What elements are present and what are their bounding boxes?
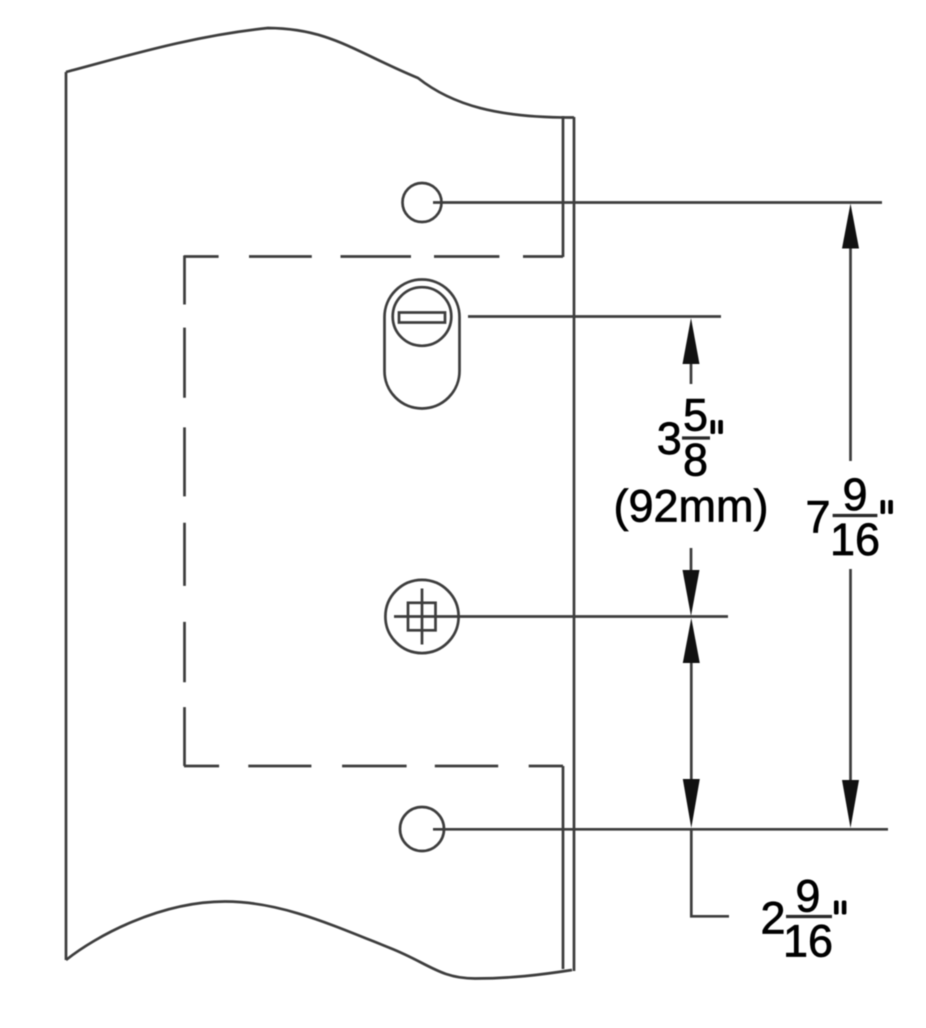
dim 3-5/8 fraction bar [682, 436, 710, 439]
inch mark ticks 7-9/16 [881, 500, 886, 514]
bottom screw hole [400, 807, 444, 851]
dim 2-9/16 up arrowhead [683, 618, 700, 663]
door edge inner line upper segment [562, 116, 565, 257]
dim 2-9/16 down arrowhead [683, 779, 700, 828]
door bottom break curve wire [66, 902, 572, 979]
cylinder keyway slot [399, 313, 445, 323]
spindle square hole [408, 603, 436, 631]
inch mark ticks 3-5/8 [711, 420, 716, 434]
cylinder face circle [393, 287, 452, 346]
spindle crosshair vertical [421, 589, 424, 645]
door left edge wire [65, 72, 68, 960]
door edge inner line lower segment [562, 766, 565, 969]
svg-text:7: 7 [806, 492, 831, 543]
svg-text:8: 8 [683, 435, 708, 486]
dim 2-9/16 upper shaft [690, 663, 693, 779]
cylinder body capsule [385, 280, 460, 409]
top screw hole [403, 183, 442, 222]
dim 7-9/16 lower shaft [849, 569, 852, 780]
svg-text:9: 9 [843, 469, 868, 520]
svg-text:3: 3 [657, 413, 682, 464]
faceplate dashed outline bottom [184, 765, 563, 768]
faceplate dashed outline left [183, 256, 186, 767]
door edge outer line [573, 117, 576, 971]
faceplate dashed outline top [184, 255, 563, 258]
dim 7-9/16 up arrowhead [842, 204, 859, 249]
svg-text:16: 16 [830, 514, 880, 565]
dim 3-5/8 upper shaft [690, 364, 693, 384]
dim 2-9/16 fraction bar [786, 915, 832, 918]
dim 7-9/16 upper shaft [849, 249, 852, 462]
bottom hole dimension line [433, 828, 888, 831]
dim 2-9/16 leader elbow [691, 829, 729, 916]
dim 7-9/16 fraction bar [833, 514, 878, 517]
spindle hole circle [385, 580, 458, 653]
dim 3-5/8 down arrowhead [683, 570, 700, 616]
dim 7-9/16 down arrowhead [842, 780, 859, 828]
dim 3-5/8 lower shaft [690, 548, 693, 570]
spindle dimension line [394, 615, 728, 618]
svg-text:9: 9 [795, 871, 820, 922]
svg-text:5: 5 [683, 390, 708, 441]
svg-text:(92mm): (92mm) [614, 481, 769, 532]
svg-text:16: 16 [783, 916, 833, 967]
cylinder dimension line [468, 315, 721, 318]
dim 3-5/8 up arrowhead [683, 318, 700, 364]
svg-text:2: 2 [761, 893, 786, 944]
inch mark ticks 2-9/16 [834, 901, 839, 915]
door top break curve wire [66, 28, 574, 118]
top hole dimension line [433, 201, 882, 204]
